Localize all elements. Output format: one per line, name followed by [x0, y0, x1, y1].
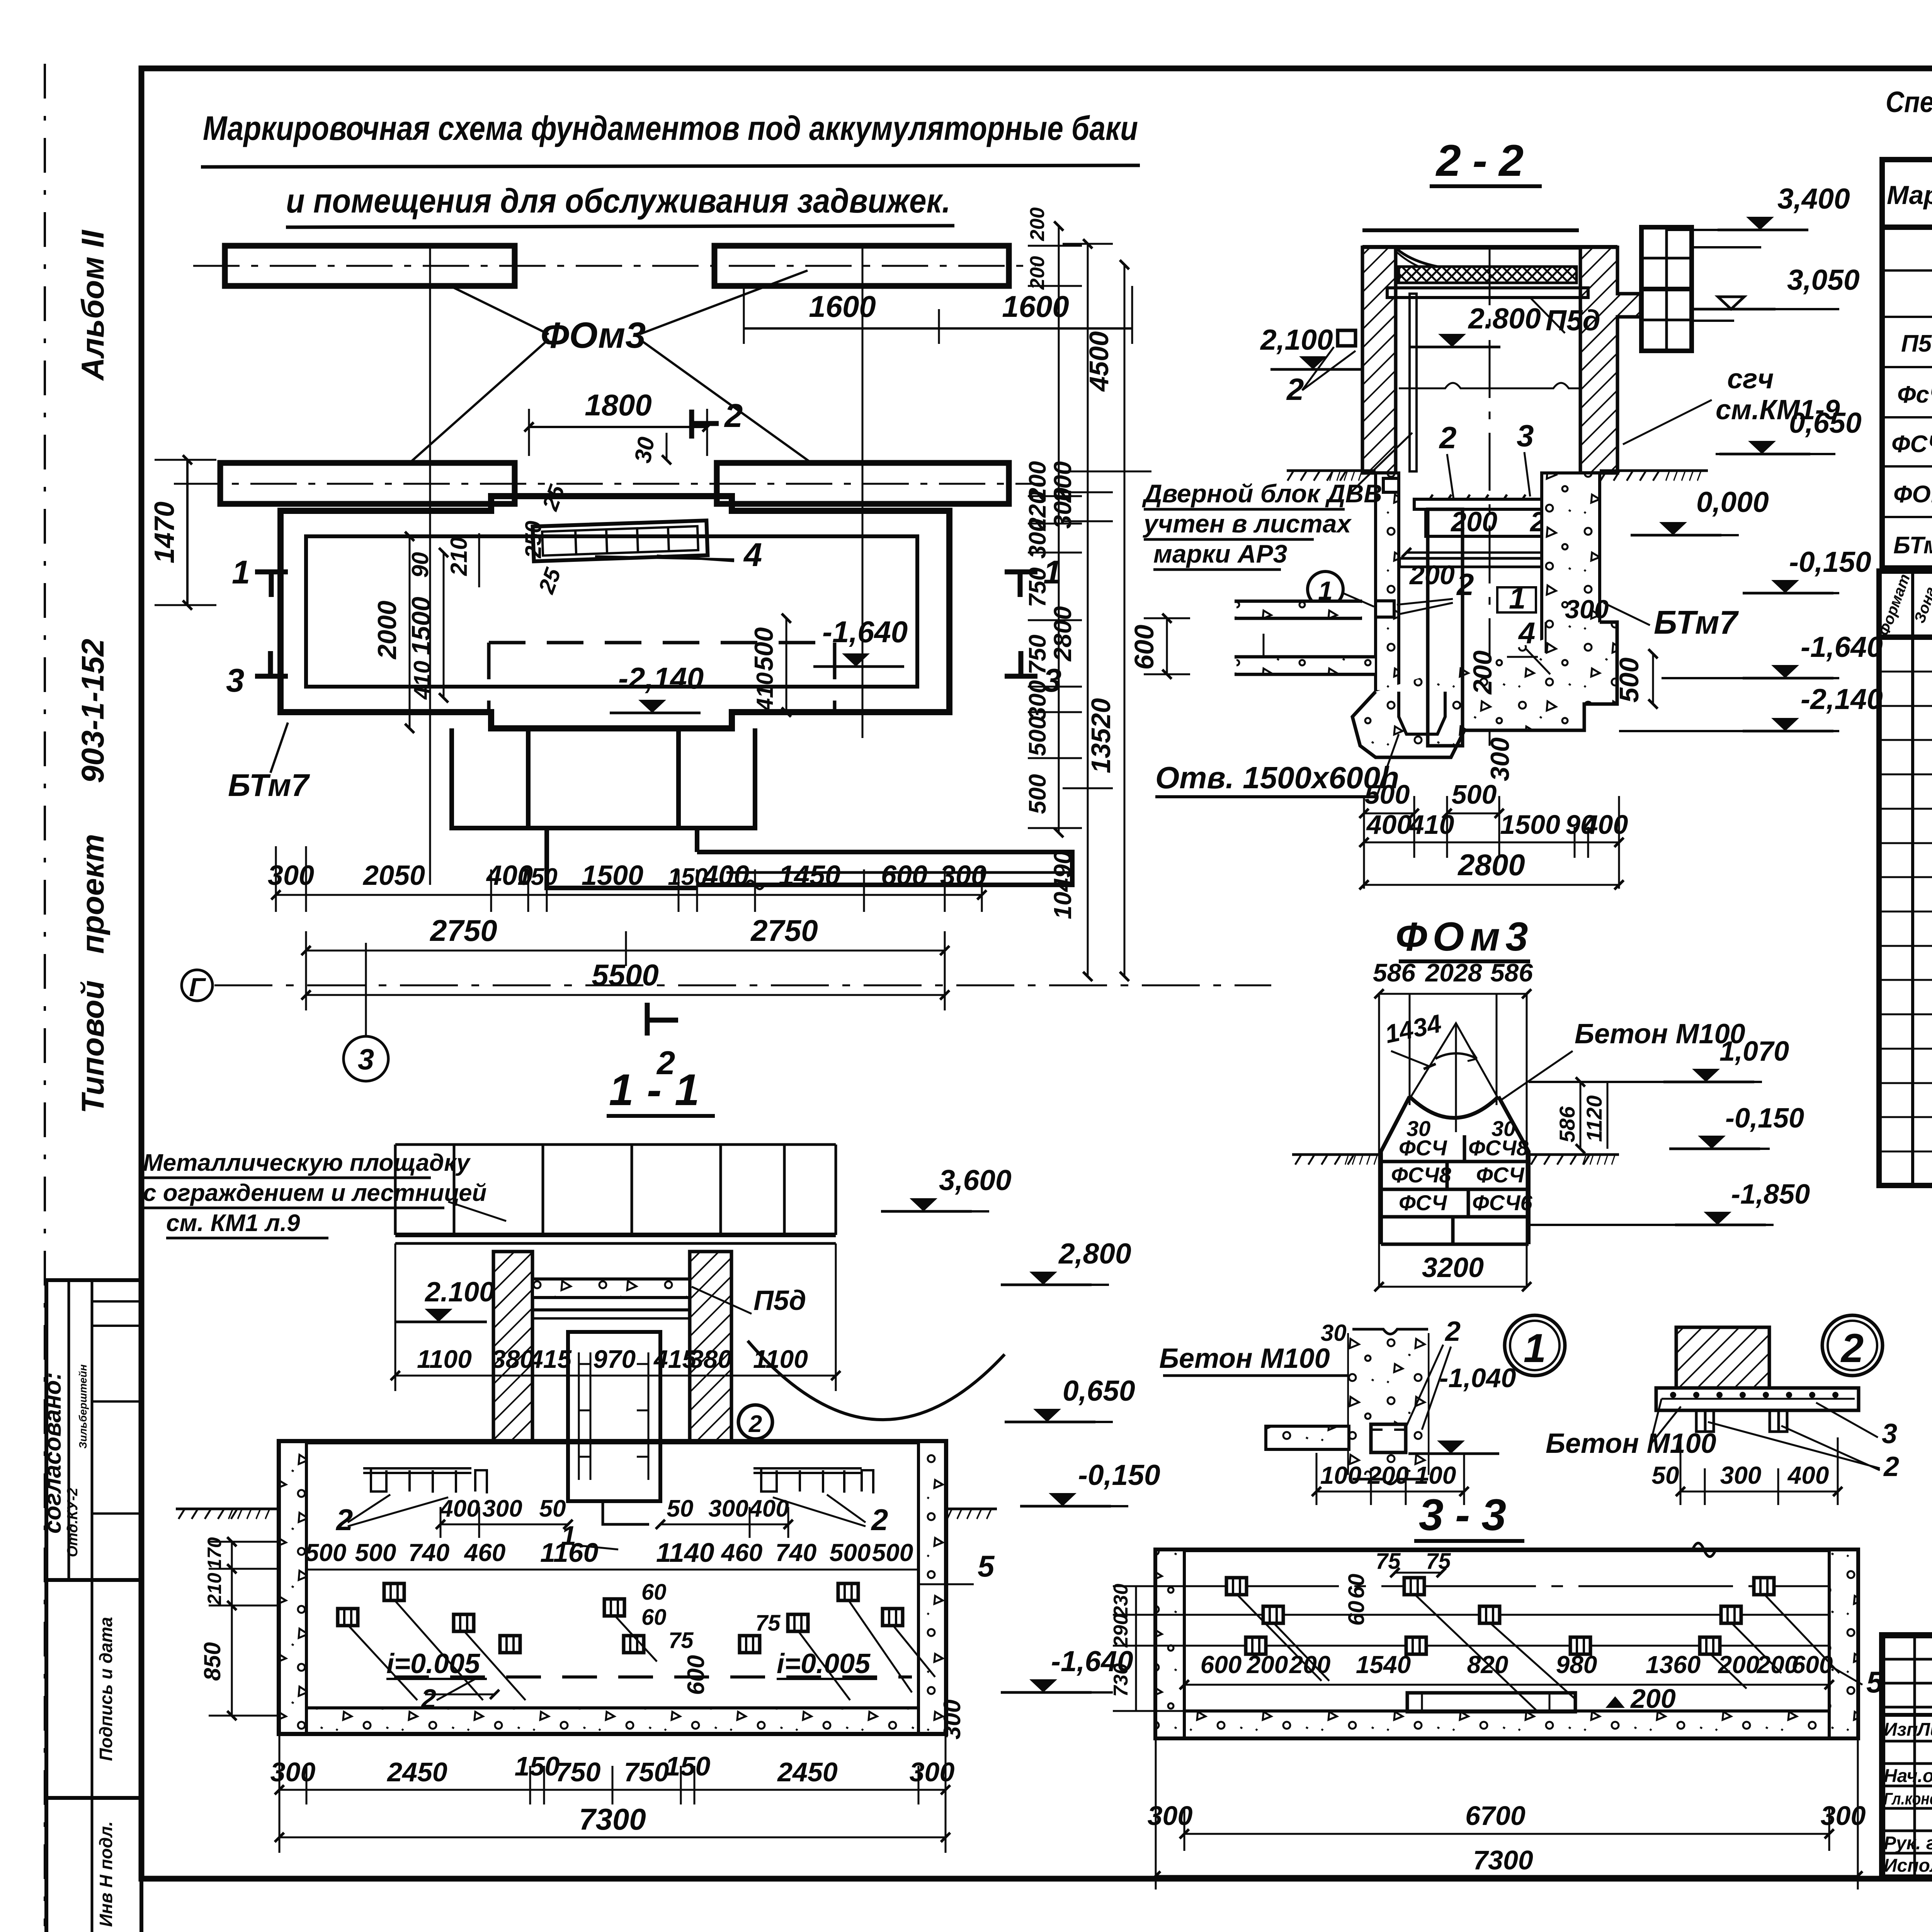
- svg-text:3,400: 3,400: [1777, 182, 1850, 215]
- svg-text:ФСЧ6: ФСЧ6: [1472, 1190, 1532, 1215]
- svg-text:3: 3: [1882, 1418, 1897, 1449]
- svg-text:1500: 1500: [582, 860, 643, 891]
- svg-text:586: 586: [1373, 958, 1416, 987]
- svg-text:200: 200: [1247, 1651, 1288, 1679]
- svg-text:ФСЧ-8: ФСЧ-8: [1891, 431, 1932, 457]
- svg-text:Рук. гР.: Рук. гР.: [1884, 1833, 1932, 1854]
- svg-text:500: 500: [1024, 774, 1051, 814]
- svg-text:600: 600: [1201, 1651, 1242, 1679]
- svg-text:и помещения для обслуживания: и помещения для обслуживания задвижек.: [286, 182, 951, 220]
- svg-text:2050: 2050: [362, 860, 425, 891]
- svg-text:7300: 7300: [579, 1802, 646, 1836]
- svg-text:7300: 7300: [1473, 1845, 1533, 1875]
- svg-text:300: 300: [1024, 680, 1051, 720]
- svg-text:400: 400: [439, 1495, 480, 1522]
- svg-text:300: 300: [1821, 1801, 1866, 1831]
- svg-text:980: 980: [1556, 1651, 1597, 1679]
- svg-text:-1,040: -1,040: [1439, 1363, 1516, 1393]
- svg-text:500: 500: [1024, 716, 1051, 756]
- svg-text:5: 5: [978, 1549, 995, 1583]
- svg-text:600: 600: [1129, 625, 1159, 670]
- svg-text:300: 300: [1720, 1461, 1762, 1489]
- svg-text:БТм7: БТм7: [1654, 604, 1739, 641]
- svg-text:500: 500: [1614, 658, 1644, 703]
- svg-text:250: 250: [521, 521, 546, 559]
- svg-text:Бетон М100: Бетон М100: [1159, 1343, 1330, 1374]
- svg-text:Зильберштейн: Зильберштейн: [77, 1364, 89, 1449]
- svg-text:1470: 1470: [149, 502, 180, 563]
- svg-text:740: 740: [776, 1539, 817, 1566]
- svg-text:3200: 3200: [1422, 1252, 1484, 1283]
- svg-text:500: 500: [1365, 779, 1410, 810]
- svg-text:1500: 1500: [1500, 810, 1560, 840]
- svg-text:3,600: 3,600: [939, 1164, 1012, 1196]
- svg-text:460: 460: [721, 1539, 763, 1566]
- svg-text:50: 50: [667, 1495, 694, 1522]
- svg-text:Альбом II: Альбом II: [75, 229, 111, 381]
- svg-text:-2,140: -2,140: [1801, 683, 1883, 715]
- svg-text:2: 2: [1439, 420, 1457, 455]
- svg-text:50: 50: [539, 1495, 566, 1522]
- svg-text:см. КМ1 л.9: см. КМ1 л.9: [166, 1210, 300, 1236]
- svg-text:П5д: П5д: [753, 1285, 806, 1316]
- svg-text:300: 300: [482, 1495, 522, 1522]
- svg-text:1-1: 1-1: [609, 1065, 713, 1115]
- svg-text:200: 200: [1718, 1651, 1760, 1679]
- svg-text:ФОм3: ФОм3: [541, 315, 646, 356]
- svg-text:Бетон М100: Бетон М100: [1546, 1428, 1716, 1459]
- svg-text:500: 500: [830, 1539, 871, 1566]
- svg-text:415: 415: [528, 1345, 572, 1373]
- svg-text:150: 150: [665, 1751, 711, 1781]
- svg-text:Спецификация элементов к марки: Спецификация элементов к маркировочной с…: [1886, 86, 1932, 119]
- svg-text:1,070: 1,070: [1719, 1036, 1789, 1067]
- svg-text:400: 400: [1787, 1461, 1829, 1489]
- svg-text:210: 210: [446, 537, 472, 576]
- svg-text:ФОм3: ФОм3: [1395, 914, 1533, 959]
- svg-text:1160: 1160: [540, 1537, 599, 1568]
- svg-text:Изп: Изп: [1884, 1719, 1918, 1740]
- svg-text:Исполн: Исполн: [1884, 1855, 1932, 1876]
- svg-text:60: 60: [641, 1605, 667, 1630]
- svg-text:380: 380: [689, 1345, 732, 1373]
- svg-text:-1,850: -1,850: [1731, 1179, 1810, 1210]
- svg-text:П5д: П5д: [1901, 330, 1932, 357]
- svg-text:75: 75: [1376, 1549, 1401, 1574]
- svg-text:30: 30: [1492, 1116, 1515, 1141]
- svg-text:1: 1: [1509, 581, 1526, 615]
- svg-text:210: 210: [204, 1573, 225, 1605]
- svg-text:Маркировочная схема фундаменто: Маркировочная схема фундаментов под акку…: [203, 109, 1138, 147]
- svg-text:1100: 1100: [753, 1345, 808, 1373]
- svg-text:200: 200: [1630, 1684, 1676, 1714]
- svg-text:БТм7: БТм7: [228, 768, 310, 803]
- svg-text:380: 380: [492, 1345, 534, 1373]
- svg-text:200: 200: [1367, 1461, 1409, 1489]
- svg-text:учтен в листах: учтен в листах: [1143, 509, 1352, 538]
- svg-text:1800: 1800: [585, 388, 652, 422]
- svg-text:Дверной блок ДВВ: Дверной блок ДВВ: [1142, 479, 1382, 508]
- svg-text:75: 75: [1426, 1549, 1451, 1574]
- svg-text:Типовой проект: Типовой проект: [75, 834, 111, 1114]
- svg-text:2-2: 2-2: [1435, 136, 1535, 185]
- svg-text:2450: 2450: [386, 1757, 447, 1787]
- svg-text:820: 820: [1467, 1651, 1509, 1679]
- svg-text:200: 200: [1026, 207, 1049, 241]
- svg-text:Лист: Лист: [1916, 1719, 1932, 1740]
- svg-text:600: 600: [683, 1655, 709, 1695]
- svg-text:ФСЧ: ФСЧ: [1399, 1190, 1447, 1215]
- svg-text:П5д: П5д: [1546, 304, 1600, 337]
- svg-text:2750: 2750: [429, 913, 497, 947]
- svg-text:586: 586: [1555, 1106, 1579, 1142]
- svg-text:10490: 10490: [1049, 850, 1077, 919]
- svg-text:150: 150: [668, 864, 707, 890]
- svg-text:300: 300: [1148, 1801, 1193, 1831]
- svg-text:500: 500: [872, 1539, 913, 1566]
- svg-text:30: 30: [1406, 1116, 1430, 1141]
- svg-text:2,100: 2,100: [1260, 323, 1333, 356]
- svg-text:с ограждением и лестницей: с ограждением и лестницей: [143, 1180, 486, 1206]
- svg-text:2: 2: [1444, 1316, 1461, 1347]
- svg-text:4: 4: [1518, 616, 1535, 650]
- svg-text:400: 400: [702, 860, 749, 891]
- svg-text:ФСЧ8: ФСЧ8: [1391, 1163, 1451, 1187]
- svg-text:0,650: 0,650: [1063, 1374, 1135, 1407]
- svg-text:3,050: 3,050: [1787, 264, 1860, 296]
- svg-text:2: 2: [1456, 567, 1474, 602]
- svg-text:850: 850: [199, 1642, 225, 1681]
- svg-text:-0,150: -0,150: [1078, 1459, 1160, 1491]
- svg-text:200: 200: [1409, 560, 1455, 590]
- svg-text:500: 500: [1452, 779, 1497, 810]
- svg-text:300: 300: [268, 860, 314, 891]
- svg-text:Г: Г: [189, 973, 206, 1002]
- svg-text:500: 500: [305, 1539, 347, 1566]
- svg-text:60: 60: [1344, 1574, 1369, 1599]
- svg-text:90: 90: [407, 552, 433, 578]
- svg-text:13520: 13520: [1086, 698, 1116, 774]
- svg-text:2.800: 2.800: [1468, 302, 1541, 335]
- svg-text:ФОм3: ФОм3: [1893, 481, 1932, 508]
- svg-text:2: 2: [1883, 1451, 1899, 1482]
- svg-text:970: 970: [593, 1345, 636, 1373]
- svg-text:Гл.констр: Гл.констр: [1884, 1789, 1932, 1808]
- svg-text:3-3: 3-3: [1419, 1490, 1518, 1540]
- svg-text:30: 30: [1321, 1320, 1347, 1346]
- svg-text:2800: 2800: [1049, 606, 1077, 662]
- svg-text:2450: 2450: [777, 1757, 838, 1787]
- svg-text:2800: 2800: [1457, 848, 1525, 882]
- svg-text:170: 170: [204, 1537, 225, 1570]
- svg-text:100: 100: [1415, 1461, 1456, 1489]
- svg-text:1360: 1360: [1646, 1651, 1701, 1679]
- svg-text:730: 730: [1110, 1663, 1132, 1697]
- svg-text:750: 750: [1024, 634, 1051, 674]
- svg-text:3: 3: [1517, 418, 1534, 453]
- svg-text:750: 750: [624, 1757, 669, 1787]
- svg-text:4: 4: [743, 537, 762, 573]
- svg-text:1100: 1100: [417, 1345, 472, 1373]
- svg-text:2750: 2750: [750, 913, 818, 947]
- svg-text:3: 3: [358, 1043, 374, 1076]
- svg-text:1120: 1120: [1582, 1095, 1606, 1142]
- svg-text:600: 600: [1792, 1651, 1833, 1679]
- svg-text:ФСЧ: ФСЧ: [1476, 1163, 1525, 1187]
- svg-text:300: 300: [270, 1757, 316, 1787]
- svg-text:1: 1: [1524, 1326, 1546, 1371]
- svg-text:i=0.005: i=0.005: [386, 1648, 480, 1679]
- svg-text:903-1-152: 903-1-152: [75, 639, 111, 783]
- svg-text:Марка: Марка: [1887, 180, 1932, 210]
- svg-text:100: 100: [1320, 1461, 1362, 1489]
- svg-text:586: 586: [1490, 958, 1533, 987]
- svg-text:2000: 2000: [372, 600, 402, 660]
- svg-text:Нач.отд.: Нач.отд.: [1884, 1766, 1932, 1786]
- svg-text:5500: 5500: [592, 958, 659, 992]
- svg-text:410: 410: [752, 672, 778, 711]
- svg-text:ФсЧ: ФсЧ: [1897, 381, 1932, 408]
- svg-text:400: 400: [748, 1495, 789, 1522]
- svg-text:300: 300: [1485, 737, 1515, 781]
- svg-text:300: 300: [1565, 595, 1609, 624]
- svg-text:2028: 2028: [1425, 958, 1482, 987]
- svg-text:2: 2: [871, 1503, 888, 1537]
- svg-text:410: 410: [409, 661, 435, 700]
- svg-text:600: 600: [881, 860, 927, 891]
- svg-text:75: 75: [668, 1628, 694, 1653]
- svg-text:3: 3: [226, 662, 244, 699]
- svg-text:200: 200: [1450, 507, 1497, 537]
- svg-text:290: 290: [1110, 1614, 1132, 1648]
- svg-text:400: 400: [1366, 810, 1412, 840]
- svg-text:1600: 1600: [809, 289, 876, 323]
- svg-text:750: 750: [1024, 567, 1051, 607]
- svg-text:Отв. 1500х600h: Отв. 1500х600h: [1155, 760, 1399, 795]
- svg-text:200: 200: [1026, 256, 1049, 290]
- svg-text:1540: 1540: [1356, 1651, 1411, 1679]
- svg-text:-0,150: -0,150: [1725, 1103, 1804, 1134]
- svg-text:2.100: 2.100: [424, 1277, 495, 1308]
- svg-text:сгч: сгч: [1727, 364, 1774, 395]
- svg-text:300: 300: [910, 1757, 955, 1787]
- svg-text:4500: 4500: [1084, 331, 1114, 392]
- svg-text:460: 460: [464, 1539, 506, 1566]
- svg-text:500: 500: [355, 1539, 396, 1566]
- svg-text:Отд.КУ-2: Отд.КУ-2: [65, 1488, 81, 1557]
- svg-text:1500: 1500: [406, 597, 436, 655]
- svg-text:200: 200: [1289, 1651, 1331, 1679]
- svg-text:2,800: 2,800: [1058, 1237, 1131, 1270]
- svg-text:740: 740: [408, 1539, 450, 1566]
- svg-text:60: 60: [641, 1580, 667, 1605]
- svg-text:2: 2: [1286, 372, 1304, 406]
- svg-text:300: 300: [940, 860, 986, 891]
- svg-text:Металлическую площадку: Металлическую площадку: [143, 1150, 471, 1176]
- svg-text:-2,140: -2,140: [618, 661, 704, 695]
- svg-text:2: 2: [724, 398, 743, 434]
- svg-text:75: 75: [755, 1611, 781, 1636]
- svg-text:2: 2: [748, 1411, 762, 1437]
- svg-text:60: 60: [1344, 1601, 1369, 1626]
- svg-text:200: 200: [1468, 650, 1497, 695]
- svg-text:БТм7: БТм7: [1893, 532, 1932, 559]
- svg-text:-0,150: -0,150: [1789, 546, 1871, 578]
- svg-text:марки АР3: марки АР3: [1153, 539, 1287, 568]
- svg-text:50: 50: [1651, 1461, 1679, 1489]
- svg-text:1450: 1450: [779, 860, 840, 891]
- svg-text:согласовано:: согласовано:: [39, 1372, 66, 1534]
- svg-text:400: 400: [1582, 810, 1628, 840]
- svg-text:2: 2: [1840, 1326, 1864, 1371]
- svg-text:300: 300: [708, 1495, 748, 1522]
- svg-text:750: 750: [556, 1757, 601, 1787]
- svg-text:1140: 1140: [656, 1537, 714, 1568]
- svg-text:2: 2: [420, 1684, 436, 1714]
- svg-text:Инв Н подл.: Инв Н подл.: [96, 1821, 116, 1927]
- svg-text:0,650: 0,650: [1789, 406, 1862, 439]
- svg-text:300: 300: [1024, 519, 1051, 558]
- svg-text:1: 1: [232, 554, 250, 591]
- svg-text:30: 30: [629, 435, 660, 465]
- svg-text:410: 410: [1408, 810, 1454, 840]
- svg-text:500: 500: [749, 627, 779, 671]
- svg-text:6700: 6700: [1465, 1801, 1526, 1831]
- svg-text:Подпись и дата: Подпись и дата: [96, 1617, 116, 1761]
- svg-text:150: 150: [515, 1751, 560, 1781]
- svg-text:-1,640: -1,640: [1801, 631, 1883, 663]
- svg-text:300: 300: [939, 1699, 966, 1739]
- svg-text:-1,640: -1,640: [822, 615, 908, 649]
- svg-text:i=0.005: i=0.005: [777, 1648, 871, 1679]
- svg-text:150: 150: [517, 864, 557, 890]
- svg-text:300: 300: [1049, 488, 1077, 529]
- svg-text:0,000: 0,000: [1696, 486, 1769, 518]
- svg-text:230: 230: [1110, 1584, 1132, 1618]
